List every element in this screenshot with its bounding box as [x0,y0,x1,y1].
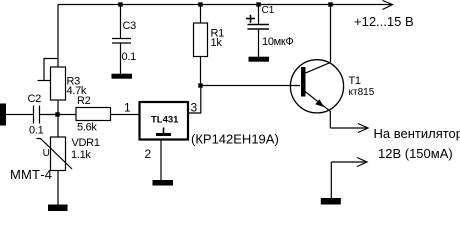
capacitor C1 [248,24,270,26]
ground (VDR1) [48,205,68,212]
svg-text:кт815: кт815 [349,87,375,98]
wire: C3 upper lead [120,5,122,39]
svg-text:C3: C3 [123,20,137,32]
svg-text:ММТ-4: ММТ-4 [10,167,52,182]
wire: pin 3 [189,86,201,114]
terminal: input [0,104,6,126]
wire: R3 to node A [57,100,59,115]
wire: node A to R2 [58,114,77,116]
svg-text:12В (150мА): 12В (150мА) [378,146,453,161]
svg-text:R2: R2 [77,95,91,107]
wire: emitter output horizontal [330,127,366,129]
svg-text:1: 1 [124,101,131,115]
resistor R1 [194,23,208,57]
ground (TL431 pin2) [153,180,174,186]
wire: R1 lower lead [200,57,202,86]
wire: C1 upper lead [258,5,260,25]
wire: base [201,85,301,87]
wire: R1 upper lead [200,5,202,24]
wire: VDR1 to ground [57,171,59,206]
capacitor C2 [33,106,35,124]
resistor R2 [76,108,111,121]
node: C1 tap [256,2,260,6]
trimmer resistor R3 body [51,67,66,100]
transistor T1 emitter stroke [305,92,330,112]
svg-text:1k: 1k [211,37,223,49]
ground (C1) [249,57,270,62]
svg-text:3: 3 [191,101,198,115]
wire: node A to VDR1 [57,115,59,138]
node A: divider junction [55,112,59,116]
arrow: +12...15V output [383,1,393,10]
node: C3 tap [118,2,122,6]
thermistor VDR1 body [51,137,66,171]
svg-text:(КР142ЕН19А): (КР142ЕН19А) [191,132,279,147]
svg-text:1.1k: 1.1k [71,149,91,161]
thermistor VDR1 diagonal [37,139,73,170]
wire: input to C2 [6,114,34,116]
svg-text:10мкФ: 10мкФ [262,36,293,48]
transistor T1 circle [290,60,343,113]
ground (C3) [112,74,133,79]
TL431 internal reference symbol [163,128,165,135]
transistor T1 emitter arrowhead [315,99,324,107]
transistor T1 base bar [301,67,306,97]
svg-text:На вентилятор: На вентилятор [374,126,460,141]
ground (fan return) [321,198,341,205]
svg-text:C2: C2 [28,93,42,105]
wire: top power rail [58,4,391,6]
wire: pin 2 [160,140,162,181]
wire: collector vertical [330,5,332,63]
capacitor C3 [112,38,131,40]
trimmer R3 tap bar [38,80,51,82]
arrow: fan return [357,158,367,167]
capacitor C1 plus sign [246,18,255,20]
svg-text:5.6k: 5.6k [77,122,97,134]
svg-text:VDR1: VDR1 [72,137,100,149]
wire: C1 lower lead [258,29,260,57]
svg-text:U: U [43,148,50,159]
trimmer R3 tap wire [44,59,58,81]
wire: fan return vertical [330,162,332,199]
svg-text:C1: C1 [262,5,275,16]
wire: C3 lower lead [120,43,122,74]
wire: fan return horizontal [331,161,365,163]
wire: R2 to TL431 pin 1 [111,114,140,116]
arrow: to fan [358,124,368,133]
transistor T1 collector stroke [305,62,331,73]
svg-text:0.1: 0.1 [122,51,137,63]
IC U1 TL431 box [140,102,189,140]
svg-text:TL431: TL431 [151,115,179,126]
wire: C2 to node A [40,114,58,116]
wire: emitter vertical [329,111,331,128]
node: base junction [198,83,202,87]
wire: left branch vertical from rail to R3 [57,5,59,68]
svg-text:2: 2 [145,147,152,161]
node: R1 tap [198,2,202,6]
svg-text:T1: T1 [349,75,361,87]
svg-text:0.1: 0.1 [29,125,44,137]
node: collector tap [328,2,332,6]
svg-text:+12...15 В: +12...15 В [354,14,414,29]
